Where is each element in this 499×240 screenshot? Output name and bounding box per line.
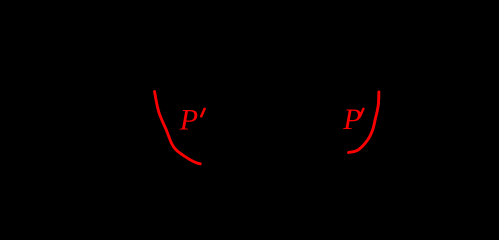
svg-text:P: P <box>179 104 198 137</box>
arc left (red curve) <box>155 92 201 164</box>
prime right <box>360 109 363 117</box>
prime left <box>201 109 204 117</box>
svg-text:P: P <box>342 103 361 136</box>
arc right (red curve) <box>349 92 379 153</box>
